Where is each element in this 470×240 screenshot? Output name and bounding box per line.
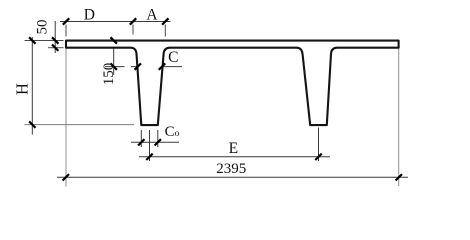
svg-text:A: A: [146, 6, 158, 23]
extension stub at x=165.3 (A right): [164, 25, 166, 37]
tick C0 right: [155, 139, 161, 145]
tick C0 left: [138, 139, 144, 145]
extension line bottom of rib level (for H): [25, 124, 135, 126]
svg-text:H: H: [13, 83, 32, 95]
extension stub at x=66 (D left): [65, 25, 67, 37]
extension line rib centre (for E left): [149, 130, 151, 161]
tick C right: [159, 63, 165, 69]
dimension line C0: [131, 141, 179, 143]
dimension line E: [139, 156, 330, 158]
dimension line D-A: [60, 21, 171, 23]
svg-text:E: E: [229, 140, 238, 157]
tick 150 bottom: [111, 63, 117, 69]
svg-text:C: C: [168, 49, 178, 66]
tick 2395 left: [63, 174, 69, 180]
dimension line 150 (vertical): [113, 41, 115, 76]
tick 2395 right: [396, 174, 402, 180]
extension line C0 left (below rib): [140, 130, 142, 147]
tick 50 bottom: [52, 45, 58, 51]
extension line right of flange at x=398.7 (for 2395): [398, 48, 400, 187]
extension line C0 right (below rib): [157, 130, 159, 147]
dimension line C: [131, 66, 182, 68]
tick D left: [63, 18, 69, 24]
tick E right: [315, 154, 321, 160]
tick C left: [135, 63, 141, 69]
extension line rib centre (for E right): [318, 128, 320, 162]
svg-text:50: 50: [35, 20, 51, 35]
dimension line 50 (vertical): [54, 21, 56, 53]
tick H bottom: [29, 121, 35, 127]
dimension line 2395: [57, 176, 408, 178]
tick 50 top / H top: [52, 37, 58, 43]
dimension line H (vertical): [31, 37, 33, 135]
svg-text:Co: Co: [165, 124, 180, 140]
tick 150 top: [111, 37, 117, 43]
extension line flange bottom-left (for 50): [48, 47, 64, 49]
slab profile: top flange with two tapered ribs: [66, 41, 399, 126]
tick H top: [29, 37, 35, 43]
extension line left of flange at x=66 (for 2395): [65, 49, 67, 187]
extension line flange top-left (for H and 50): [25, 40, 64, 42]
extension stub at x=133 (D/A boundary): [132, 25, 134, 35]
tick A right: [162, 18, 168, 24]
svg-text:2395: 2395: [216, 161, 246, 177]
tick D/A boundary: [130, 18, 136, 24]
svg-text:150: 150: [101, 63, 117, 86]
tick E left: [146, 154, 152, 160]
dimension line 150 bottom segment: [105, 66, 125, 68]
svg-text:D: D: [84, 6, 95, 23]
